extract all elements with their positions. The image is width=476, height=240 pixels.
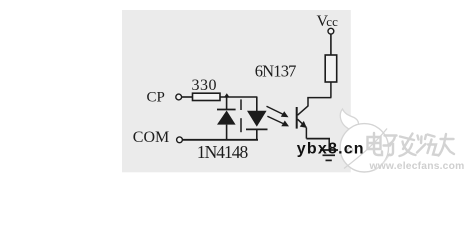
node COM terminal <box>177 137 183 143</box>
wire CP terminal to R1 <box>182 96 193 98</box>
watermark swirl logo (decorative) <box>340 109 390 172</box>
svg-text:330: 330 <box>192 77 218 94</box>
light arrow 1 <box>267 106 289 117</box>
wire Q1 emitter to ground <box>306 128 330 150</box>
node CP terminal <box>176 94 182 100</box>
light arrow 2 <box>267 116 289 126</box>
wire Vcc to R2 <box>330 34 332 55</box>
background panel <box>122 10 351 172</box>
wire R2 to collector node <box>330 82 332 98</box>
wire COM rail <box>183 139 258 141</box>
watermark chinese brand text (decorative) <box>368 133 455 156</box>
svg-text:www.elecfans.com: www.elecfans.com <box>369 161 465 172</box>
svg-text:cc: cc <box>326 14 338 29</box>
node junction D1 top <box>224 93 229 97</box>
node Vcc terminal <box>328 28 334 34</box>
svg-text:CP: CP <box>147 89 165 105</box>
ground <box>320 150 338 160</box>
svg-text:1N4148: 1N4148 <box>197 142 249 162</box>
optocoupler package dashed line <box>240 99 242 132</box>
label Vcc <box>317 13 339 30</box>
resistor R2 pull-up <box>325 55 337 82</box>
LED D2 (6N137 emitter diode) <box>246 97 268 140</box>
svg-text:6N137: 6N137 <box>255 61 296 80</box>
svg-text:COM: COM <box>133 129 169 146</box>
svg-text:ybx8.cn: ybx8.cn <box>297 141 365 158</box>
wire Q1 collector to R2 <box>307 98 331 107</box>
phototransistor Q1 <box>297 106 309 129</box>
diode D1 1N4148 <box>217 97 236 140</box>
wire R1 to LED anode <box>220 96 257 98</box>
resistor R1 <box>193 93 221 100</box>
